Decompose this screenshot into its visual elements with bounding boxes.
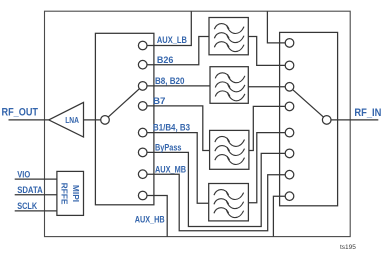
wire RF_OUT lead <box>9 119 49 121</box>
wire VIO <box>15 178 57 180</box>
left switch throw 3 B8,B20 <box>138 82 147 91</box>
filter F2 symbol <box>215 73 245 101</box>
wire AUX_LB to top border rail <box>147 11 191 45</box>
wire RF_IN lead <box>331 119 378 121</box>
filter F2 box <box>210 67 248 104</box>
right switch throw 8 <box>285 192 294 201</box>
wire filter4 output to right switch <box>248 133 285 203</box>
right switch pole contact <box>322 116 331 125</box>
right switch throw 5 <box>285 128 294 137</box>
wire SDATA <box>15 194 57 196</box>
svg-text:SDATA: SDATA <box>17 185 43 195</box>
MIPI RFFE box <box>57 171 84 215</box>
wire filter2 output to right switch <box>248 86 285 88</box>
right switch arm wire <box>293 90 324 117</box>
right switch box <box>280 32 338 205</box>
wire ByPass down-around to right switch <box>147 152 285 226</box>
svg-text:RF_IN: RF_IN <box>354 107 381 119</box>
wire AUX_HB left drop to bottom border rail <box>147 196 167 237</box>
left switch throw 1 AUX_LB <box>138 41 147 50</box>
wire AUX_HB bottom rail rise to right switch <box>273 196 285 236</box>
left switch arm wire <box>108 89 139 117</box>
wire B26 to filter1 input <box>147 37 209 65</box>
svg-text:AUX_HB: AUX_HB <box>135 215 165 225</box>
wire filter3 output to right switch <box>249 106 285 150</box>
svg-text:RF_OUT: RF_OUT <box>2 107 39 119</box>
filter F3 box <box>210 130 249 169</box>
filter F1 symbol <box>214 24 244 52</box>
left switch throw 5 B1/B4,B3 <box>138 128 147 137</box>
outer border (module boundary) <box>45 11 351 236</box>
svg-text:B1/B4, B3: B1/B4, B3 <box>153 123 190 133</box>
filter F4 box <box>209 184 249 221</box>
wire B7 to filter3 input <box>147 106 210 151</box>
right switch throw 1 <box>285 39 294 48</box>
wire B1/B4,B3 to filter4 input <box>147 133 209 204</box>
svg-text:B26: B26 <box>157 55 174 65</box>
right switch throw 6 <box>285 149 294 158</box>
left switch throw 4 B7 <box>138 102 147 111</box>
svg-text:B7: B7 <box>153 96 166 106</box>
wire AUX_MB down-around to right switch <box>147 174 285 231</box>
wire SCLK <box>15 210 57 212</box>
svg-text:LNA: LNA <box>65 116 79 125</box>
right switch throw 7 <box>285 170 294 179</box>
svg-text:AUX_LB: AUX_LB <box>157 35 187 45</box>
svg-text:ByPass: ByPass <box>155 142 182 152</box>
wire LNA output to left switch pole <box>84 119 101 121</box>
svg-text:VIO: VIO <box>17 169 30 179</box>
filter F4 symbol <box>214 190 244 218</box>
left switch throw 7 AUX_MB <box>138 170 147 179</box>
right switch throw 4 <box>285 102 294 111</box>
filter F1 box <box>209 18 248 55</box>
svg-text:MIPI: MIPI <box>71 185 81 202</box>
wire B8,B20 to filter2 input <box>147 85 210 87</box>
left switch throw 2 B26 <box>138 60 147 69</box>
left switch box <box>95 33 153 205</box>
svg-text:B8, B20: B8, B20 <box>155 76 185 86</box>
left switch throw 6 ByPass <box>138 148 147 157</box>
svg-text:AUX_MB: AUX_MB <box>155 164 186 174</box>
right switch throw 2 <box>285 61 294 70</box>
svg-text:SCLK: SCLK <box>17 201 37 211</box>
left switch pole contact <box>101 116 110 125</box>
wire filter1 output to right switch <box>248 37 285 66</box>
svg-text:ts195: ts195 <box>340 244 356 251</box>
svg-text:RFFE: RFFE <box>60 183 70 205</box>
op-amp LNA <box>49 102 84 137</box>
right switch throw 3 <box>285 83 294 92</box>
left switch throw 8 AUX_HB <box>138 191 147 200</box>
wire AUX_LB top rail drop to right switch <box>267 11 285 43</box>
filter F3 symbol <box>215 136 245 164</box>
